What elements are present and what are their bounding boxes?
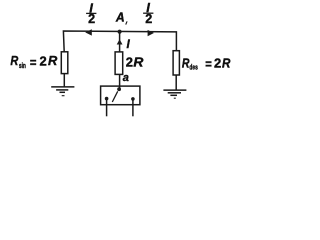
svg-text:R: R	[133, 55, 144, 70]
svg-text:a: a	[123, 72, 129, 84]
svg-text:=: =	[205, 57, 212, 72]
svg-text:R: R	[10, 53, 18, 68]
svg-text:R: R	[222, 56, 231, 71]
svg-text:2: 2	[126, 55, 133, 70]
svg-text:2: 2	[214, 56, 221, 71]
svg-text:des: des	[189, 63, 197, 72]
svg-text:2: 2	[40, 54, 47, 69]
svg-text:A: A	[115, 9, 125, 24]
svg-text:sin: sin	[19, 61, 26, 70]
svg-text:R: R	[182, 56, 190, 70]
svg-text:R: R	[48, 53, 58, 68]
svg-text:=: =	[30, 55, 37, 70]
svg-text:2: 2	[88, 12, 95, 26]
svg-text:2: 2	[145, 12, 152, 26]
